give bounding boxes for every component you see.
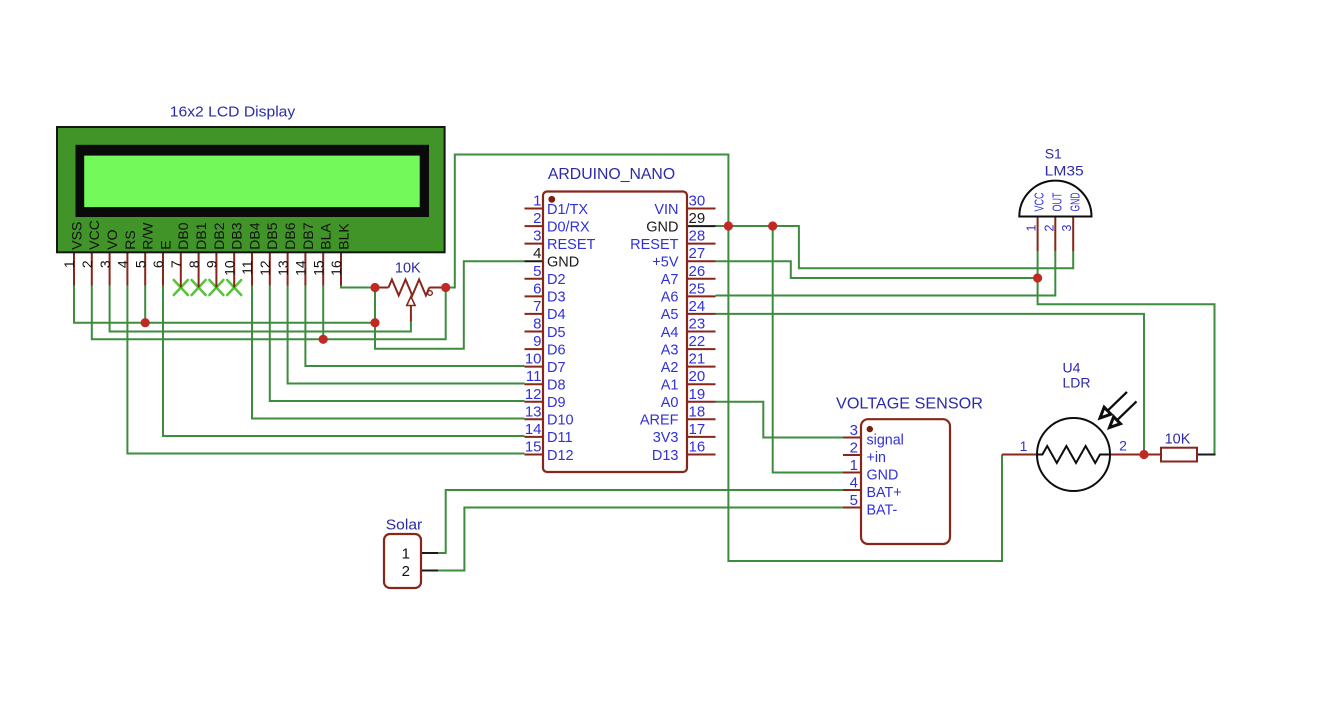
svg-text:2: 2 <box>1042 225 1056 232</box>
svg-text:A3: A3 <box>661 342 679 358</box>
svg-text:+in: +in <box>867 450 887 466</box>
svg-text:15: 15 <box>525 439 542 456</box>
svg-text:E: E <box>157 240 173 249</box>
svg-text:8: 8 <box>186 260 202 268</box>
svg-text:3V3: 3V3 <box>653 430 679 446</box>
svg-text:DB5: DB5 <box>264 222 280 249</box>
svg-text:VOLTAGE SENSOR: VOLTAGE SENSOR <box>836 395 983 412</box>
svg-text:4: 4 <box>850 475 858 492</box>
svg-text:GND: GND <box>867 468 899 484</box>
svg-text:7: 7 <box>533 298 541 315</box>
svg-text:3: 3 <box>97 260 113 268</box>
svg-text:BAT+: BAT+ <box>867 485 902 501</box>
svg-text:3: 3 <box>533 228 541 245</box>
svg-text:VCC: VCC <box>86 220 102 250</box>
svg-text:VIN: VIN <box>654 202 678 218</box>
svg-text:RS: RS <box>122 230 138 249</box>
svg-text:1: 1 <box>61 260 77 268</box>
svg-text:6: 6 <box>533 280 541 297</box>
svg-text:19: 19 <box>689 386 706 403</box>
svg-text:LDR: LDR <box>1063 375 1091 391</box>
svg-text:28: 28 <box>689 228 706 245</box>
svg-text:10: 10 <box>525 351 542 368</box>
svg-text:GND: GND <box>547 255 579 271</box>
svg-text:13: 13 <box>275 260 291 276</box>
svg-text:AREF: AREF <box>640 413 679 429</box>
svg-text:DB3: DB3 <box>229 222 245 249</box>
svg-text:2: 2 <box>402 563 410 580</box>
svg-text:8: 8 <box>533 316 541 333</box>
svg-text:A2: A2 <box>661 360 679 376</box>
svg-text:D10: D10 <box>547 413 574 429</box>
svg-text:S1: S1 <box>1045 146 1062 162</box>
svg-text:20: 20 <box>689 368 706 385</box>
svg-text:11: 11 <box>526 368 542 385</box>
svg-text:5: 5 <box>132 260 148 268</box>
svg-text:R/W: R/W <box>140 222 156 250</box>
svg-text:D7: D7 <box>547 360 566 376</box>
svg-text:27: 27 <box>689 245 706 262</box>
svg-text:D1/TX: D1/TX <box>547 202 588 218</box>
svg-text:signal: signal <box>867 433 904 449</box>
svg-text:1: 1 <box>1025 225 1039 232</box>
svg-text:1: 1 <box>850 457 858 474</box>
svg-text:7: 7 <box>168 260 184 268</box>
svg-text:26: 26 <box>689 263 706 280</box>
svg-text:DB4: DB4 <box>246 222 262 249</box>
svg-text:RESET: RESET <box>547 237 595 253</box>
svg-text:D6: D6 <box>547 342 566 358</box>
svg-text:D11: D11 <box>547 430 573 446</box>
svg-text:2: 2 <box>1119 438 1127 454</box>
svg-text:D12: D12 <box>547 448 574 464</box>
svg-text:13: 13 <box>525 403 542 420</box>
svg-text:DB2: DB2 <box>211 222 227 249</box>
svg-text:10K: 10K <box>1165 432 1191 448</box>
svg-text:16x2 LCD Display: 16x2 LCD Display <box>170 104 296 121</box>
svg-text:16: 16 <box>689 439 706 456</box>
svg-text:VSS: VSS <box>68 222 84 250</box>
svg-text:D13: D13 <box>652 448 679 464</box>
svg-text:9: 9 <box>204 260 220 268</box>
svg-text:30: 30 <box>689 193 706 210</box>
svg-text:VO: VO <box>104 229 120 249</box>
svg-text:9: 9 <box>533 333 541 350</box>
svg-text:3: 3 <box>1060 225 1074 232</box>
svg-text:A6: A6 <box>661 290 679 306</box>
svg-text:A5: A5 <box>661 307 679 323</box>
svg-text:DB1: DB1 <box>193 222 209 249</box>
svg-text:D4: D4 <box>547 307 566 323</box>
svg-text:BLK: BLK <box>335 223 351 250</box>
svg-text:6: 6 <box>150 260 166 268</box>
svg-text:2: 2 <box>79 260 95 268</box>
svg-text:D8: D8 <box>547 378 566 394</box>
svg-text:5: 5 <box>533 263 541 280</box>
svg-text:A4: A4 <box>661 325 679 341</box>
svg-text:D0/RX: D0/RX <box>547 219 590 235</box>
svg-text:1: 1 <box>533 193 541 210</box>
svg-text:10K: 10K <box>395 261 421 277</box>
svg-text:17: 17 <box>689 421 706 438</box>
svg-text:+5V: +5V <box>652 255 679 271</box>
svg-text:4: 4 <box>533 245 541 262</box>
svg-text:2: 2 <box>533 210 541 227</box>
svg-text:18: 18 <box>689 403 706 420</box>
svg-text:D3: D3 <box>547 290 566 306</box>
svg-text:11: 11 <box>239 260 255 275</box>
svg-text:14: 14 <box>293 260 309 276</box>
svg-text:BAT-: BAT- <box>867 503 898 519</box>
svg-text:DB6: DB6 <box>282 222 298 249</box>
svg-text:10: 10 <box>221 260 237 276</box>
svg-text:21: 21 <box>689 351 706 368</box>
svg-text:A1: A1 <box>661 378 679 394</box>
svg-text:A7: A7 <box>661 272 679 288</box>
svg-text:D5: D5 <box>547 325 566 341</box>
svg-text:12: 12 <box>257 260 273 276</box>
svg-text:U4: U4 <box>1063 360 1081 376</box>
svg-text:DB7: DB7 <box>300 222 316 249</box>
svg-text:15: 15 <box>310 260 326 276</box>
svg-text:BLA: BLA <box>318 223 334 250</box>
svg-text:RESET: RESET <box>630 237 678 253</box>
svg-text:A0: A0 <box>661 395 679 411</box>
svg-text:3: 3 <box>850 422 858 439</box>
svg-text:OUT: OUT <box>1049 192 1064 211</box>
svg-text:24: 24 <box>689 298 706 315</box>
svg-text:VCC: VCC <box>1032 193 1047 212</box>
svg-text:12: 12 <box>525 386 542 403</box>
svg-text:LM35: LM35 <box>1045 163 1084 179</box>
svg-text:4: 4 <box>115 260 131 268</box>
svg-text:14: 14 <box>525 421 542 438</box>
svg-text:29: 29 <box>689 210 706 227</box>
svg-text:1: 1 <box>1020 438 1028 454</box>
svg-text:DB0: DB0 <box>175 222 191 249</box>
svg-text:22: 22 <box>689 333 706 350</box>
svg-text:GND: GND <box>1067 193 1082 212</box>
svg-text:23: 23 <box>689 316 706 333</box>
svg-text:5: 5 <box>850 492 858 509</box>
svg-text:25: 25 <box>689 280 706 297</box>
svg-text:1: 1 <box>402 546 410 563</box>
svg-text:D9: D9 <box>547 395 566 411</box>
svg-text:GND: GND <box>646 219 678 235</box>
svg-text:Solar: Solar <box>386 518 423 534</box>
svg-text:ARDUINO_NANO: ARDUINO_NANO <box>548 166 675 183</box>
svg-text:2: 2 <box>850 440 858 457</box>
svg-text:D2: D2 <box>547 272 566 288</box>
svg-text:16: 16 <box>328 260 344 276</box>
